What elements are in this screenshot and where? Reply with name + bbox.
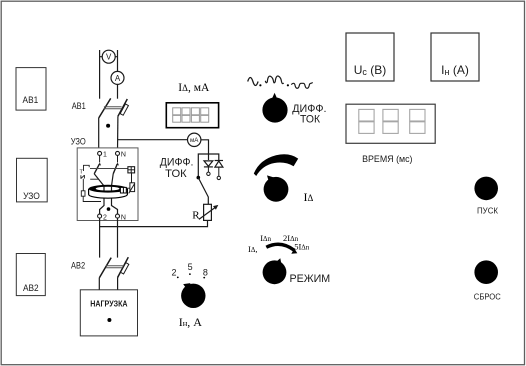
- terminal 1: [98, 151, 107, 158]
- svg-text:УЗО: УЗО: [71, 136, 86, 146]
- wire N AB1 to UZO: [117, 116, 119, 151]
- svg-text:1: 1: [103, 152, 107, 159]
- svg-text:N: N: [121, 152, 126, 159]
- terminal N bottom: [116, 214, 126, 221]
- terminal 2: [98, 214, 107, 221]
- dot sep 1: [259, 84, 261, 86]
- selector pivot dot: [197, 176, 201, 180]
- svg-text:N: N: [121, 214, 126, 221]
- terminal N top: [116, 151, 126, 158]
- knob DIFF TOK: [262, 93, 287, 123]
- ammeter A1: [111, 71, 124, 84]
- waveform icon half-wave: [291, 82, 312, 88]
- svg-text:R: R: [192, 210, 200, 222]
- RCD module UZO box: [17, 158, 48, 202]
- wire L UZO to AB2: [99, 218, 101, 258]
- knob I-delta: [264, 175, 289, 201]
- milliammeter mA: [188, 133, 201, 146]
- wire N top: [117, 50, 119, 71]
- RCD UZO schematic box: [77, 148, 138, 221]
- breaker module AB2 box: [16, 254, 45, 296]
- wire L through toroid: [94, 174, 104, 214]
- svg-text:АВ1: АВ1: [72, 101, 86, 111]
- RCD contact L with arrow: [94, 163, 101, 174]
- svg-text:НАГРУЗКА: НАГРУЗКА: [90, 299, 128, 308]
- svg-text:Iн, А: Iн, А: [179, 315, 203, 329]
- wire L AB1 to UZO: [98, 118, 101, 152]
- wire AB2 to load N: [117, 278, 119, 290]
- svg-text:2: 2: [172, 267, 177, 277]
- svg-text:РЕЖИМ: РЕЖИМ: [290, 273, 331, 285]
- test resistor: [81, 191, 101, 202]
- svg-text:V: V: [106, 53, 112, 62]
- trip linkage bar: [90, 168, 128, 170]
- box In(A): [431, 33, 479, 81]
- svg-text:Uс (В): Uс (В): [354, 63, 387, 77]
- indicator dot load: [107, 318, 111, 322]
- svg-text:ВРЕМЯ (мс): ВРЕМЯ (мс): [362, 154, 412, 164]
- dot sep 2: [287, 84, 289, 86]
- svg-text:УЗО: УЗО: [23, 191, 40, 202]
- ramp arc for I-delta knob: [254, 154, 298, 176]
- wire mA to diode selector: [201, 140, 209, 160]
- wire terminalN to contact: [117, 155, 119, 162]
- svg-text:A: A: [115, 74, 121, 83]
- selector blade to R: [198, 178, 208, 205]
- tick dots 2 5 8: [177, 277, 179, 279]
- breaker AB2: [99, 257, 129, 278]
- knob REZHIM: [263, 258, 287, 284]
- svg-text:СБРОС: СБРОС: [474, 291, 501, 301]
- RCD contact N with arrow: [113, 163, 119, 174]
- selector rail: [198, 154, 219, 177]
- actuator element: [129, 173, 135, 194]
- button PUSK: [474, 177, 498, 216]
- junction dot AB1: [106, 124, 110, 128]
- svg-text:2: 2: [103, 214, 107, 221]
- wire N UZO to AB2: [117, 218, 119, 258]
- junction dot UZO bottom: [107, 207, 111, 211]
- waveform icon full-wave: [265, 76, 283, 84]
- svg-text:мА: мА: [190, 137, 199, 144]
- display I-delta mA: [166, 103, 218, 128]
- wire tap to mA meter: [118, 139, 188, 141]
- winding wire to actuator: [126, 187, 130, 189]
- toroidal current transformer: [89, 185, 128, 198]
- svg-text:IΔ, мА: IΔ, мА: [178, 82, 210, 94]
- box Uc(V): [346, 33, 394, 81]
- branch wire to resistor R: [100, 220, 208, 226]
- wire terminal1 to contact: [99, 155, 101, 162]
- svg-text:ТОК: ТОК: [300, 114, 321, 126]
- wire N between A meter and AB1: [117, 85, 119, 99]
- load box NAGRUZKA: [80, 290, 137, 336]
- svg-text:АВ1: АВ1: [23, 95, 39, 106]
- test button T circuit: [80, 165, 99, 191]
- breaker AB1: [99, 98, 129, 118]
- diode VD2 (up): [215, 161, 223, 180]
- svg-text:ТОК: ТОК: [165, 168, 187, 180]
- resistor R adjustable: [192, 204, 218, 221]
- svg-text:АВ2: АВ2: [23, 283, 39, 294]
- diode VD1 (down): [204, 161, 213, 176]
- svg-text:IΔ: IΔ: [304, 190, 314, 204]
- svg-text:ДИФФ.: ДИФФ.: [160, 157, 194, 169]
- display VREMYA: [346, 104, 435, 143]
- waveform icon sine: [248, 78, 258, 86]
- svg-text:АВ2: АВ2: [71, 261, 85, 271]
- wire L top (phase): [99, 50, 101, 99]
- mode arc with arrow: [266, 244, 297, 253]
- breaker module AB1 box: [16, 68, 46, 111]
- button SBROS: [474, 260, 501, 301]
- svg-text:IΔn: IΔn: [260, 233, 271, 243]
- scale labels 2 5 8: [172, 262, 208, 278]
- voltmeter V1: [100, 50, 118, 63]
- svg-text:5IΔn: 5IΔn: [294, 241, 310, 251]
- wire N through toroid: [112, 174, 118, 214]
- knob In: [181, 283, 205, 308]
- wire AB2 to load L: [98, 278, 100, 290]
- svg-text:5: 5: [188, 262, 193, 272]
- svg-text:IΔ,: IΔ,: [248, 244, 257, 254]
- svg-text:8: 8: [203, 268, 208, 278]
- differential relay (cross square): [128, 167, 135, 173]
- svg-text:ПУСК: ПУСК: [477, 206, 498, 216]
